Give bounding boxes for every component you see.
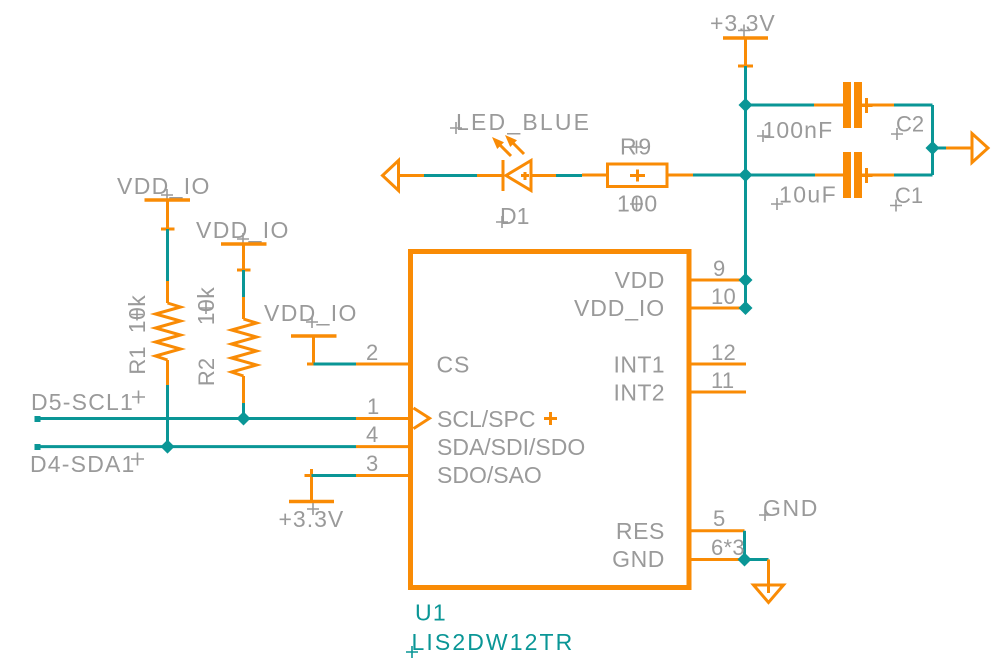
wire +3.3V to pin 3: [312, 474, 357, 477]
node A junction: [739, 98, 753, 112]
wire LED to R9: [556, 174, 582, 177]
wire SCL: [37, 417, 356, 420]
resistor R9: [582, 134, 693, 217]
svg-text:SCL/SPC: SCL/SPC: [437, 406, 535, 432]
wire node A to C2: [746, 104, 815, 107]
wire node A rail down through C1 row: [744, 105, 747, 175]
pin 3 SDO/SAO stub: [356, 474, 410, 477]
wire node C to C1: [746, 174, 816, 177]
node junction R2/SCL: [237, 412, 251, 426]
svg-text:D5-SCL1: D5-SCL1: [31, 389, 134, 415]
node junction R1/SDA: [161, 440, 175, 454]
node junction pin 10: [739, 301, 753, 315]
svg-text:3: 3: [366, 451, 379, 476]
svg-text:D1: D1: [500, 203, 529, 229]
wire C2 to right rail: [894, 104, 933, 107]
svg-text:SDO/SAO: SDO/SAO: [437, 462, 542, 488]
svg-text:5: 5: [713, 506, 726, 531]
svg-text:VDD_IO: VDD_IO: [574, 295, 665, 321]
wire end marker SDA: [35, 444, 41, 450]
pin 2 CS stub: [356, 363, 410, 366]
node C junction (C1/R9 row): [739, 168, 753, 182]
svg-text:U1: U1: [415, 600, 447, 626]
node junction pin 6: [738, 553, 752, 567]
svg-text:RES: RES: [616, 518, 665, 544]
pin 4 SDA/SDI/SDO stub: [356, 445, 410, 448]
wire R9 to node C: [693, 174, 746, 177]
net label D5-SCL1: [31, 389, 145, 415]
net label D4-SDA1: [30, 451, 144, 477]
wire +3.3V down to junction A: [744, 66, 747, 105]
power symbol VDD_IO (R1): [117, 173, 211, 229]
wire left connector to LED: [424, 174, 477, 177]
power symbol +3.3V (top): [710, 10, 776, 66]
symbol anchor cross U1: [544, 412, 557, 425]
pin 10 VDD_IO stub: [689, 307, 746, 310]
svg-text:D4-SDA1: D4-SDA1: [30, 451, 136, 477]
wire R2 to SCL: [242, 403, 245, 419]
ground symbol: [754, 495, 819, 603]
wire pin 6 to GND symbol: [745, 558, 769, 561]
svg-text:LIS2DW12TR: LIS2DW12TR: [412, 629, 575, 655]
svg-text:+3.3V: +3.3V: [279, 506, 345, 532]
wire C1 to right rail: [894, 174, 933, 177]
IC U1 LIS2DW12TR body: [411, 252, 690, 588]
node B junction on right rail: [926, 141, 940, 155]
svg-text:R2: R2: [194, 358, 219, 386]
pin 6 GND stub: [689, 558, 745, 561]
svg-text:SDA/SDI/SDO: SDA/SDI/SDO: [437, 434, 585, 460]
svg-text:10: 10: [711, 284, 736, 309]
wire rail down to pin 9: [744, 175, 747, 308]
pin 12 INT1 stub: [689, 363, 746, 366]
wire VDD_IO to R2: [242, 270, 245, 297]
svg-text:9: 9: [713, 256, 726, 281]
resistor R2 10k: [193, 287, 257, 403]
pin 11 INT2 stub: [689, 391, 746, 394]
svg-text:INT2: INT2: [614, 380, 665, 406]
svg-text:2: 2: [366, 340, 379, 365]
svg-text:C1: C1: [895, 183, 923, 208]
pin 1 clock mark: [414, 408, 430, 429]
svg-text:LED_BLUE: LED_BLUE: [456, 109, 591, 135]
resistor R1 10k: [124, 281, 181, 385]
off-page connector (right): [946, 134, 988, 163]
svg-text:C2: C2: [896, 112, 924, 137]
svg-text:10uF: 10uF: [779, 182, 837, 208]
svg-text:VDD: VDD: [615, 267, 665, 293]
LED D1: [450, 109, 591, 229]
power symbol +3.3V (pin 3): [279, 469, 345, 532]
wire end marker SCL: [35, 416, 41, 422]
capacitor C2 100nF: [757, 82, 924, 143]
svg-text:INT1: INT1: [614, 352, 665, 378]
wire VDD_IO to R1: [166, 229, 169, 281]
wire right rail vertical: [931, 105, 934, 175]
svg-text:6*3: 6*3: [711, 535, 745, 560]
svg-text:+3.3V: +3.3V: [710, 10, 776, 36]
svg-text:GND: GND: [763, 495, 819, 521]
capacitor C1 10uF: [771, 152, 923, 212]
svg-text:GND: GND: [612, 546, 665, 572]
power symbol VDD_IO (pin 2): [264, 300, 358, 364]
pin 5 RES stub: [689, 529, 745, 532]
svg-text:11: 11: [711, 368, 734, 393]
power symbol VDD_IO (R2): [196, 217, 290, 270]
wire R1 to SDA: [166, 385, 169, 447]
wire SDA: [37, 445, 356, 448]
svg-text:CS: CS: [437, 352, 471, 378]
svg-text:1: 1: [367, 394, 380, 419]
wire node B to connector stub: [933, 147, 947, 150]
pin 1 SCL/SPC stub: [356, 417, 410, 420]
off-page connector (left): [383, 161, 425, 191]
svg-text:4: 4: [366, 422, 379, 447]
svg-text:100nF: 100nF: [763, 117, 834, 143]
U1 value label LIS2DW12TR: [406, 629, 574, 658]
svg-text:R1: R1: [125, 346, 150, 374]
wire pin 5 down to pin 6: [743, 531, 746, 560]
pin 9 VDD stub: [689, 279, 746, 282]
svg-text:12: 12: [711, 340, 736, 365]
node junction pin 9: [739, 273, 753, 287]
wire VDD_IO to pin 2: [314, 363, 357, 366]
